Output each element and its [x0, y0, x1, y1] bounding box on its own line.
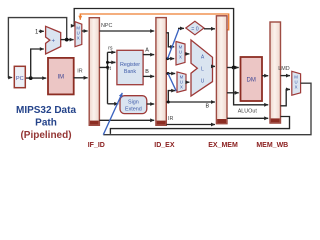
wire: zero comparator output to EX_MEM: [204, 28, 215, 30]
svg-text:ALUOut: ALUOut: [238, 108, 258, 114]
wire: IR from EX_MEM to MEM_WB: [227, 117, 268, 119]
wire: B output to ID_EX: [143, 75, 154, 77]
node: ALUOut junction: [232, 66, 236, 70]
wire: WB mux output around bottom: [103, 83, 311, 135]
svg-text:A: A: [145, 48, 149, 54]
wire: write-back data into register bank (blue diagonal): [103, 93, 122, 135]
svg-text:L: L: [201, 66, 204, 72]
svg-text:U: U: [201, 78, 205, 84]
wire: PC mux output to IF_ID (NPC): [82, 30, 88, 32]
svg-text:IF_ID: IF_ID: [88, 142, 105, 149]
pipeline register ID_EX: [156, 18, 166, 126]
wire: DM output (LMD) to MEM_WB: [262, 75, 268, 77]
svg-text:DM: DM: [247, 77, 256, 83]
wire: branch target from ALUOut junction along top into PC mux: [74, 9, 233, 67]
wire: B from ID_EX to mux2: [166, 72, 175, 75]
wire: IR from ID_EX to EX_MEM: [166, 124, 215, 126]
wire: adder output to PC mux: [61, 39, 74, 41]
wire: ALUOut down and into MEM_WB: [234, 68, 269, 105]
wire: branch condition (orange) from EX_MEM to PC mux select: [80, 14, 228, 30]
svg-text:EX_MEM: EX_MEM: [208, 142, 238, 149]
svg-text:IM: IM: [57, 74, 64, 80]
svg-text:Sign: Sign: [128, 99, 139, 105]
pipeline register MEM_WB: [270, 22, 281, 123]
memory IM: [48, 58, 74, 95]
sign extend unit: [120, 96, 147, 114]
wire: NPC from IF_ID to ID_EX: [99, 30, 154, 32]
svg-text:Bank: Bank: [124, 69, 137, 75]
wire: LMD into WB mux: [281, 75, 291, 77]
wire: sign extend output to ID_EX: [147, 103, 154, 105]
svg-text:NPC: NPC: [101, 23, 112, 29]
svg-text:rs: rs: [108, 45, 113, 51]
memory DM: [241, 57, 263, 101]
register bank: [117, 50, 143, 84]
svg-text:Path: Path: [35, 117, 57, 128]
wire: constant 1 into adder: [39, 30, 44, 32]
svg-text:= 0: = 0: [191, 26, 198, 32]
mux1 (ALU input 1): [176, 42, 185, 65]
wire: IR from IF_ID to rs/rt/sign-extend riser: [99, 52, 118, 104]
svg-text:PC: PC: [16, 76, 24, 82]
wire: A to zero-comparator (blue diagonal): [168, 29, 179, 59]
svg-text:MIPS32 Data: MIPS32 Data: [16, 105, 76, 116]
wire: IR from MEM_WB wrapping back left: [110, 117, 289, 134]
wire: ALUOut from MEM_WB into WB mux: [281, 89, 291, 105]
wire: ALUOut from EX_MEM to DM: [227, 67, 239, 69]
wire: mux2 output to ALU: [186, 81, 189, 83]
wire: mux1 output to ALU: [185, 53, 189, 55]
wire: B crossing to mux2 lower input (blue diagonal): [168, 74, 176, 92]
svg-text:Extend: Extend: [125, 106, 142, 112]
ALU: [191, 40, 213, 96]
wire: into zero comparator: [178, 27, 184, 29]
svg-text:Register: Register: [120, 62, 140, 68]
wire: A output to ID_EX: [143, 54, 154, 56]
node: PC+1 junction: [65, 38, 69, 42]
wire: PC feedback from PC+4 junction around left side into PC: [8, 18, 66, 78]
svg-text:B: B: [145, 69, 149, 75]
svg-text:X: X: [180, 85, 183, 90]
wire: Imm/B from ID_EX to EX_MEM with branch up to mux2: [166, 91, 215, 104]
svg-text:B: B: [206, 104, 210, 110]
svg-text:LMD: LMD: [278, 66, 289, 72]
svg-text:X: X: [179, 55, 182, 60]
svg-text:MEM_WB: MEM_WB: [256, 142, 288, 149]
mux: PC source mux: [75, 22, 82, 47]
register PC: [14, 66, 25, 87]
node: PC output junction: [29, 76, 33, 80]
wire: B from EX_MEM to DM write data: [227, 92, 239, 94]
mux2 (ALU input 2): [177, 72, 186, 92]
zero comparator =0: [186, 21, 204, 35]
svg-text:X: X: [77, 36, 80, 41]
adder PC+1: [46, 26, 61, 54]
wire: ALU output to EX_MEM: [213, 65, 216, 67]
mux WB (write-back select): [292, 71, 301, 95]
pipeline register EX_MEM: [216, 16, 227, 124]
wire: NPC from ID_EX to mux1: [166, 33, 174, 47]
svg-text:IR: IR: [168, 116, 173, 122]
wire: IR from IF_ID bottom to ID_EX: [99, 119, 154, 121]
wire: PC output to IM: [25, 77, 46, 79]
wire: A from ID_EX to mux1: [166, 57, 174, 60]
pipeline register IF_ID: [89, 18, 99, 126]
wire: IM output to IF_ID: [74, 77, 88, 79]
wire: PC value up to adder input: [31, 49, 44, 78]
svg-text:+: +: [51, 38, 55, 44]
svg-text:IR: IR: [77, 69, 82, 75]
svg-text:X: X: [295, 85, 298, 90]
svg-text:(Pipelined): (Pipelined): [20, 130, 71, 141]
svg-text:ID_EX: ID_EX: [154, 142, 175, 149]
